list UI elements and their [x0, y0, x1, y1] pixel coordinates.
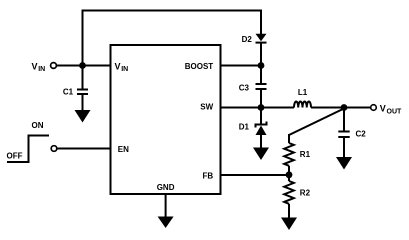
wire IC BOOST pin to boost node: [221, 65, 262, 67]
svg-text:V: V: [32, 61, 38, 71]
ground (C2): [336, 157, 352, 170]
capacitor C3: [239, 66, 267, 108]
diode D1 (Schottky): [239, 108, 267, 149]
wire IC FB pin to feedback node: [221, 174, 290, 176]
svg-text:OFF: OFF: [7, 151, 23, 160]
node VOUT output terminal: [371, 104, 402, 116]
svg-text:SW: SW: [200, 102, 213, 111]
svg-text:OUT: OUT: [387, 108, 403, 115]
switch ON/OFF: [7, 121, 57, 162]
svg-text:IN: IN: [121, 66, 128, 73]
wire VOUT junction to R1 (diagonal): [289, 109, 344, 136]
svg-text:C3: C3: [239, 83, 250, 92]
svg-text:IN: IN: [38, 66, 45, 73]
resistor R1: [284, 134, 310, 175]
svg-text:BOOST: BOOST: [185, 62, 214, 71]
svg-text:V: V: [115, 61, 121, 71]
inductor L1: [294, 88, 311, 108]
junction VIN / C1 / top rail: [79, 62, 86, 69]
wire L1 to VOUT terminal: [311, 107, 371, 109]
svg-text:D1: D1: [239, 123, 250, 132]
wire top rail from VIN junction to D2 anode: [83, 11, 262, 66]
svg-text:L1: L1: [298, 88, 308, 97]
node VIN input terminal: [32, 61, 57, 73]
svg-text:D2: D2: [242, 35, 253, 44]
ground (D1): [253, 148, 269, 161]
ground (C1): [75, 110, 91, 123]
svg-text:C2: C2: [356, 130, 367, 139]
svg-text:GND: GND: [157, 183, 175, 192]
capacitor C2: [338, 108, 366, 158]
wire switch to IC EN pin: [57, 148, 111, 150]
svg-text:FB: FB: [203, 171, 214, 180]
svg-text:EN: EN: [118, 145, 129, 154]
capacitor C1: [63, 66, 88, 111]
wire IC SW pin to inductor L1: [221, 107, 295, 109]
junction VOUT / C2 / R1: [341, 104, 348, 111]
ground (IC GND pin): [158, 195, 174, 229]
junction BOOST / D2 / C3: [258, 62, 265, 69]
svg-text:V: V: [380, 104, 386, 114]
ground (R2): [281, 218, 297, 231]
diode D2: [242, 34, 267, 66]
junction FB / R1 / R2: [286, 171, 293, 178]
junction SW / C3 / D1: [258, 104, 265, 111]
resistor R2: [284, 175, 310, 218]
svg-text:R1: R1: [300, 150, 311, 159]
wire VIN terminal to IC VIN pin: [56, 65, 110, 67]
svg-text:C1: C1: [63, 87, 74, 96]
pin VIN label: [115, 61, 129, 73]
svg-text:ON: ON: [32, 121, 44, 130]
svg-text:R2: R2: [300, 189, 311, 198]
op-amp U1 regulator IC body: [111, 45, 221, 194]
